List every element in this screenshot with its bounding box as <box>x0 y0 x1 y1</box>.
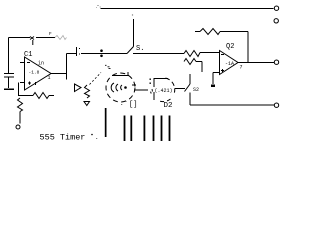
svg-text:1: 1 <box>48 75 51 81</box>
svg-text:C1: C1 <box>24 51 32 59</box>
svg-text:-1.8: -1.8 <box>29 70 40 76</box>
svg-text:.: . <box>95 134 99 141</box>
svg-text:555 Timer: 555 Timer <box>40 133 86 143</box>
svg-text:F: F <box>49 31 52 37</box>
svg-text:7: 7 <box>240 65 243 71</box>
svg-text:Q2: Q2 <box>226 43 234 51</box>
svg-text:[]: [] <box>129 101 137 109</box>
svg-text:-1A: -1A <box>225 61 234 67</box>
svg-text:S.: S. <box>136 45 144 53</box>
svg-text:D2: D2 <box>164 102 173 110</box>
svg-text:(.421): (.421) <box>155 88 173 94</box>
svg-text:S2: S2 <box>193 87 199 93</box>
svg-text:in: in <box>38 61 44 67</box>
